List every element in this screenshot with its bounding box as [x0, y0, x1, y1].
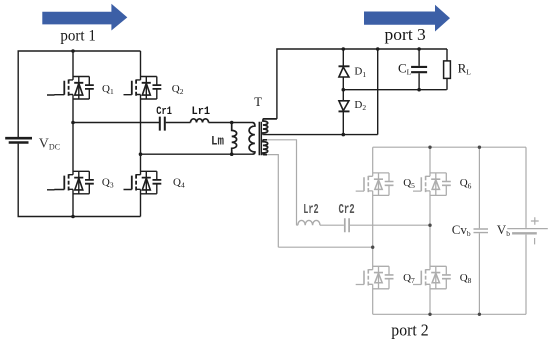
- svg-text:RL: RL: [458, 61, 472, 77]
- svg-text:D2: D2: [354, 99, 366, 112]
- svg-text:port 2: port 2: [391, 321, 428, 340]
- svg-text:Lr2: Lr2: [303, 203, 318, 218]
- svg-text:port 3: port 3: [385, 25, 426, 44]
- svg-text:Cvb: Cvb: [452, 222, 471, 238]
- svg-text:port 1: port 1: [60, 28, 96, 45]
- svg-text:Vb: Vb: [497, 222, 510, 238]
- svg-text:Q5: Q5: [403, 177, 415, 190]
- svg-text:Lm: Lm: [211, 134, 224, 149]
- svg-text:Q7: Q7: [403, 272, 415, 285]
- svg-text:Q3: Q3: [102, 176, 114, 189]
- svg-text:VDC: VDC: [39, 136, 60, 151]
- svg-text:CL: CL: [398, 61, 412, 77]
- svg-text:Q1: Q1: [102, 83, 114, 96]
- svg-text:Q8: Q8: [460, 272, 472, 285]
- svg-text:Cr1: Cr1: [156, 106, 172, 118]
- svg-text:Q2: Q2: [172, 83, 184, 96]
- svg-text:Q4: Q4: [173, 176, 185, 189]
- svg-text:Q6: Q6: [460, 177, 472, 190]
- svg-text:D1: D1: [354, 66, 366, 79]
- svg-text:Lr1: Lr1: [192, 106, 211, 118]
- svg-text:Cr2: Cr2: [339, 203, 355, 218]
- svg-text:T: T: [254, 95, 262, 109]
